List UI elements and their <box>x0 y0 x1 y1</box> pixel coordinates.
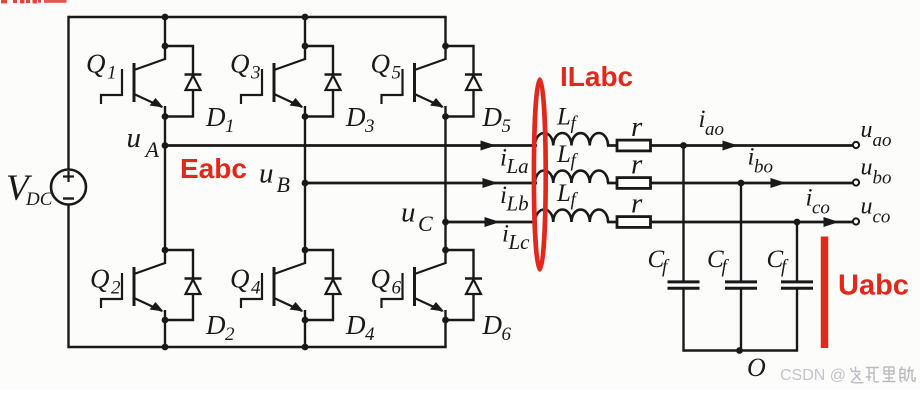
svg-text:3: 3 <box>364 116 375 137</box>
wire: phase a inverter-to-filter segment <box>165 144 537 147</box>
svg-text:5: 5 <box>502 116 512 137</box>
node: bottom rail junction leg 1 <box>162 344 169 351</box>
inductor Lf (phase c) <box>535 210 608 223</box>
voltage source VDC <box>51 170 86 205</box>
wire: phase c inverter-to-filter segment <box>446 221 538 224</box>
svg-text:L: L <box>556 141 571 168</box>
svg-text:Lc: Lc <box>508 230 531 254</box>
terminal uao (output) <box>853 142 859 148</box>
capacitor Cf (phase c) <box>781 282 813 288</box>
diode D1 (freewheeling) <box>165 46 202 117</box>
wire: capacitor branch phase c (lower) <box>796 288 798 351</box>
svg-text:1: 1 <box>107 63 117 84</box>
watermark: CJK characters (drawn strokes) <box>851 367 916 383</box>
diode D3 (freewheeling) <box>305 46 342 117</box>
wire: phase b coil-to-resistor segment <box>607 182 617 185</box>
wire: capacitor branch phase c (upper) <box>796 222 798 282</box>
current arrow iao <box>723 141 739 151</box>
wire: leg 3 lower drop <box>444 320 446 347</box>
wire: capacitor branch phase a (upper) <box>682 146 684 282</box>
node: neutral junction O <box>736 347 743 354</box>
svg-text:Q: Q <box>230 49 250 79</box>
svg-text:D: D <box>345 310 366 340</box>
svg-text:ao: ao <box>873 130 892 151</box>
svg-text:Eabc: Eabc <box>180 153 247 184</box>
wire: phase a coil-to-resistor segment <box>607 144 617 147</box>
node: phase A midpoint junction <box>162 142 169 149</box>
node: phase B midpoint junction <box>302 180 309 187</box>
svg-text:Q: Q <box>86 49 106 79</box>
wire: phase b inverter-to-filter segment <box>305 182 537 185</box>
wire: phase c resistor-to-terminal segment <box>651 221 854 224</box>
svg-text:CSDN @: CSDN @ <box>780 367 846 384</box>
svg-text:u: u <box>861 117 873 143</box>
node: phase c capacitor tap junction <box>794 219 801 226</box>
node: phase a capacitor tap junction <box>680 142 687 149</box>
node: Q4 emitter junction <box>302 317 309 324</box>
svg-text:5: 5 <box>392 63 402 84</box>
current arrow ibo <box>771 178 787 188</box>
diode D4 (freewheeling) <box>305 250 342 320</box>
node: Q2 collector junction <box>162 247 169 254</box>
svg-text:r: r <box>631 148 643 180</box>
svg-text:Q: Q <box>230 264 250 294</box>
svg-text:C: C <box>418 211 433 236</box>
diode D5 (freewheeling) <box>446 46 483 117</box>
current arrow ico <box>824 217 840 227</box>
svg-text:2: 2 <box>111 278 121 299</box>
svg-text:A: A <box>144 137 160 162</box>
wire: capacitor branch phase b (upper) <box>740 183 742 282</box>
node: phase C midpoint junction <box>442 219 449 226</box>
current arrow iLa <box>481 141 497 151</box>
wire: left DC link (source top) <box>67 16 69 170</box>
svg-text:u: u <box>259 158 274 190</box>
wire: leg 2 lower drop <box>304 320 306 347</box>
resistor r (phase c) <box>617 217 651 228</box>
svg-text:u: u <box>861 194 873 220</box>
wire: neutral rail (capacitor common) <box>684 349 798 351</box>
svg-text:ILabc: ILabc <box>560 61 633 92</box>
resistor r (phase b) <box>617 178 651 189</box>
resistor r (phase a) <box>617 140 651 151</box>
node: Q1 collector junction <box>162 43 169 50</box>
node: Q1 emitter junction <box>162 113 169 120</box>
node: Q5 emitter junction <box>442 113 449 120</box>
wire: phase b resistor-to-terminal segment <box>651 182 854 185</box>
svg-text:Q: Q <box>371 264 391 294</box>
svg-text:D: D <box>482 310 503 340</box>
transistor Q1 (IGBT) <box>101 46 165 117</box>
svg-text:D: D <box>205 310 226 340</box>
svg-text:bo: bo <box>873 168 892 189</box>
transistor Q3 (IGBT) <box>241 46 305 117</box>
cropped red annotation text (top-left, cut off) <box>1 0 67 3</box>
node: Q6 emitter junction <box>442 317 449 324</box>
svg-text:Q: Q <box>90 264 110 294</box>
transistor Q2 (IGBT) <box>101 250 165 320</box>
annotation ellipse: ILabc measurement loop <box>534 80 546 270</box>
svg-text:D: D <box>345 102 366 132</box>
wire: leg 3 midpoint link <box>444 117 446 251</box>
current arrow iLc <box>485 217 501 227</box>
node: top rail junction leg 1 <box>162 14 169 21</box>
terminal ubo (output) <box>853 179 859 185</box>
svg-text:u: u <box>861 155 873 181</box>
svg-text:D: D <box>205 102 226 132</box>
node: Q6 collector junction <box>442 247 449 254</box>
transistor Q6 (IGBT) <box>382 250 446 320</box>
svg-text:6: 6 <box>392 278 402 299</box>
svg-text:co: co <box>812 197 830 218</box>
svg-text:1: 1 <box>225 116 235 137</box>
wire: capacitor branch phase b (lower) <box>740 288 742 351</box>
wire: capacitor branch phase a (lower) <box>682 288 684 351</box>
node: Q2 emitter junction <box>162 317 169 324</box>
wire: leg 1 lower drop <box>164 320 166 347</box>
diode D6 (freewheeling) <box>446 250 483 320</box>
diode D2 (freewheeling) <box>165 250 202 320</box>
wire: top DC rail <box>69 16 447 18</box>
wire: bottom DC rail <box>69 346 447 348</box>
svg-text:B: B <box>277 172 290 197</box>
transistor Q5 (IGBT) <box>382 46 446 117</box>
svg-text:Lb: Lb <box>506 192 529 216</box>
svg-text:Uabc: Uabc <box>838 270 909 302</box>
node: bottom rail junction leg 2 <box>302 344 309 351</box>
wire: leg 3 upper drop <box>444 17 446 46</box>
svg-text:bo: bo <box>754 156 773 177</box>
node: Q3 collector junction <box>302 43 309 50</box>
svg-text:L: L <box>556 103 571 130</box>
svg-text:r: r <box>631 111 643 143</box>
svg-text:4: 4 <box>251 278 261 299</box>
capacitor Cf (phase a) <box>668 282 700 288</box>
svg-text:u: u <box>401 197 416 229</box>
transistor Q4 (IGBT) <box>241 250 305 320</box>
wire: leg 2 upper drop <box>304 17 306 46</box>
node: Q4 collector junction <box>302 247 309 254</box>
node: Q3 emitter junction <box>302 113 309 120</box>
svg-text:La: La <box>506 154 529 178</box>
svg-text:ao: ao <box>705 119 724 140</box>
wire: phase c coil-to-resistor segment <box>607 221 617 224</box>
svg-text:Q: Q <box>371 49 391 79</box>
svg-text:DC: DC <box>25 189 53 210</box>
svg-text:L: L <box>556 180 571 207</box>
svg-text:co: co <box>873 207 891 228</box>
node: top rail junction leg 2 <box>302 14 309 21</box>
current arrow iLb <box>483 178 499 188</box>
wire: left DC link (source bottom) <box>67 205 69 349</box>
node: phase b capacitor tap junction <box>738 180 745 187</box>
wire: leg 2 midpoint link <box>304 117 306 251</box>
svg-text:u: u <box>127 122 142 154</box>
capacitor Cf (phase b) <box>725 282 757 288</box>
wire: phase a resistor-to-terminal segment <box>651 144 854 147</box>
wire: leg 1 midpoint link <box>164 117 166 251</box>
svg-text:6: 6 <box>502 324 512 345</box>
svg-text:2: 2 <box>225 324 235 345</box>
inductor Lf (phase b) <box>535 171 608 184</box>
inductor Lf (phase a) <box>535 133 608 146</box>
svg-text:r: r <box>631 187 643 219</box>
svg-text:3: 3 <box>250 63 261 84</box>
svg-text:D: D <box>482 102 503 132</box>
annotation bar: Uabc measurement marker <box>821 237 829 349</box>
svg-text:O: O <box>747 353 766 382</box>
wire: leg 1 upper drop <box>164 17 166 46</box>
node: Q5 collector junction <box>442 43 449 50</box>
terminal uco (output) <box>853 218 859 224</box>
svg-text:4: 4 <box>365 324 375 345</box>
